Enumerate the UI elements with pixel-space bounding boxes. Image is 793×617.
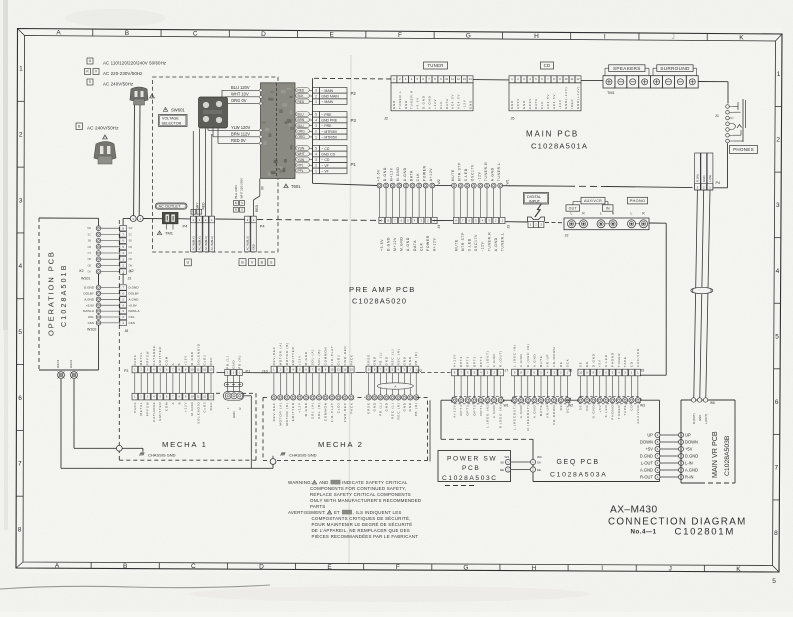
safety marks B V B S below enclosure [239, 259, 246, 266]
wires W4 pair to pair [511, 461, 531, 463]
wire W2 to W1 [435, 185, 451, 187]
wire W104 to mecha1 chassis node [73, 379, 75, 448]
connector P2 circles row [366, 395, 419, 420]
wire J1 down to preamp bus [727, 143, 729, 188]
SURROUND label box [657, 65, 693, 72]
MECHA 1 chassis gnd symbol [141, 452, 145, 454]
label TM1 with warning triangle [157, 231, 161, 235]
wire mains bus dashed across preamp top [257, 219, 381, 222]
warning notice text block [288, 480, 421, 539]
inline terminals 1-1 on mains wire [130, 216, 136, 222]
connector P3 (PRE power) [313, 112, 348, 140]
pin wires J10 to mecha2 circles [273, 373, 275, 395]
pin wires W2 to J4 [379, 188, 381, 217]
digital input optical arrow symbol [535, 204, 542, 218]
connector P4 (phones board top right) [695, 153, 713, 190]
scan artifact: left edge shadow [3, 0, 8, 330]
connector P1 (CD/VF power) [313, 146, 348, 174]
terminal strip TM1 (speakers/surround) [603, 76, 698, 88]
tape PB 3-pin plug [223, 391, 244, 418]
connector P4 (AC in, preamp left) [191, 216, 215, 252]
connector P3 (mecha1, preamp side) [132, 343, 214, 373]
scan noise overlay [0, 0, 1, 1]
connector J8 (operation pcb lower) [120, 285, 141, 326]
wires from AC plug 1 down to terminals [133, 105, 136, 216]
MECHA 2 dashed box [262, 397, 264, 460]
AUX/VCR label box [581, 197, 605, 204]
transformer secondary wire labels YLW WHT YLW PPL PPL [296, 146, 313, 173]
connector J4 (preamp top) [379, 217, 437, 251]
transformer secondary wire labels RED BLK RED [296, 88, 313, 104]
connector W102 (circle column) [83, 285, 120, 325]
connector W103 screw terminal [58, 372, 65, 379]
PRE AMP PCB left edge dashed [118, 220, 120, 393]
connector W4 right pair [530, 459, 535, 464]
wire mains bus between P4 strips [215, 218, 244, 220]
MECHA 2 chassis node [270, 459, 276, 465]
connector P1 (tape PB out) [225, 355, 243, 376]
wire RCA to GEQ J5 column [649, 222, 666, 224]
pin wires W1 to J3 [453, 188, 455, 217]
connector J3 (operation pcb upper) [120, 226, 133, 275]
wire mains bus outlet to P4 [178, 218, 191, 220]
wire TUNER to CD [473, 79, 509, 81]
MAIN VR PCB box [681, 399, 735, 401]
wire tape plug down to chassis line [244, 395, 252, 397]
AC OUTLET label box [155, 203, 187, 209]
wire dashed to TUNER connector [314, 77, 391, 80]
label T601 [284, 184, 288, 188]
MECHA 2 chassis gnd symbol [272, 456, 274, 459]
SPEAKERS label box [609, 65, 645, 72]
links between geq connector circles [503, 399, 512, 401]
link P1 to J10 [243, 372, 271, 374]
jumper oval A on P2 pins [377, 383, 413, 389]
note R V: AC 220-230V/50Hz [85, 69, 91, 75]
connector mecha2 W (circle row) [271, 395, 354, 426]
cable tie oval on P4 wires [691, 287, 713, 293]
wires selector down to P4 strips [192, 131, 194, 216]
wire trunk to main bus [313, 183, 377, 185]
wire J3 column to W102 column [98, 274, 100, 286]
dashes below power sw box [445, 485, 475, 487]
wire CD to TM1 [581, 79, 603, 81]
transformer secondary wire labels BLU BRN BLU ORG ORG [296, 112, 313, 139]
GEQ PCB outline [441, 399, 452, 401]
note S: AC 240V/50Hz [87, 79, 93, 85]
TUNER label box [424, 62, 448, 69]
connector J5 (CD) [509, 76, 581, 111]
wire W103 to mecha2 chassis node [60, 379, 62, 468]
connector W101 (circle column) [87, 226, 120, 274]
link mecha1 to P1 [217, 372, 225, 374]
switch SW601 label [163, 108, 167, 112]
warning triangle near plug 1 [150, 94, 155, 98]
wire trunk left of P connectors [312, 78, 314, 183]
connector W2 (circle row to preamp) [376, 165, 434, 188]
POWER SW PCB box [438, 451, 511, 482]
connector W6 (main vr top) [691, 398, 707, 424]
connector P4 (AC in, preamp right) [245, 216, 257, 252]
wire digital to RCA block [545, 222, 564, 224]
headphone jack J1 [726, 99, 746, 143]
pin wires P3 to mecha1 J [134, 373, 136, 394]
RCA jack block J2 (out/aux/phono) [564, 212, 649, 230]
safety mark boxes above right P4 [234, 201, 239, 206]
note B: AC 240V/50Hz [76, 123, 83, 130]
wire along mecha2 right edge [429, 400, 431, 461]
PHONES label box [730, 146, 758, 154]
warning triangle above plug 2 [103, 135, 108, 139]
safety mark boxes above left P4 [191, 209, 196, 214]
transformer T601 body [259, 83, 295, 179]
VOLTAGE SELECTOR label box [159, 115, 188, 127]
scan artifact: bottom wavy edge line [0, 585, 270, 589]
cable sleeve pill [224, 382, 243, 386]
wire W1 to P4 phones feed [503, 185, 569, 188]
connector P2 (MAIN power) [313, 88, 348, 105]
connector J10 (mecha2, preamp side) [271, 342, 354, 373]
PHONO label box [628, 197, 648, 204]
OUT label box [566, 205, 580, 211]
wires P4 down to main vr pcb [694, 190, 698, 398]
note U: AC 110/120/220/240V 50/60Hz [87, 58, 93, 64]
AC outlet component [162, 212, 178, 223]
connector digital 1 2 3 [528, 222, 544, 228]
connector J5 / W3 (geq select) [577, 348, 641, 424]
connector W104 screw terminal [71, 372, 78, 379]
connector J7 / W1 (geq opt) [451, 350, 504, 428]
wire mains bus to outlet [143, 218, 162, 220]
pin wires P1 to sleeve [226, 375, 228, 391]
safety mark U below enclosure [185, 259, 192, 266]
wire J4 row to J3 row [432, 220, 453, 222]
frame corner diagonals [18, 29, 25, 36]
connector mecha1 J (mecha side) [132, 393, 214, 423]
pin wires P2 [368, 373, 370, 395]
MECHA 1 chassis node [116, 445, 122, 451]
geq output circle column and main vr input column [640, 432, 698, 479]
mains wire into operation pcb connector [123, 217, 130, 219]
connector J3 (preamp top) [453, 217, 505, 251]
connector W1 (circle row to preamp) [451, 162, 503, 188]
connector J6 / W2 (geq rec) [511, 343, 571, 430]
wire TM1 to J1 phones [698, 81, 728, 83]
IN label box [603, 205, 614, 211]
wire J3 row to digital connector [506, 221, 528, 223]
AC plug symbol 2 [94, 142, 116, 165]
AC plug symbol 1 [130, 87, 148, 105]
power supply dashed enclosure [153, 77, 279, 252]
connector J2 (TUNER) [391, 76, 473, 111]
MECHA 1 dashed box [118, 393, 120, 460]
DIGITAL INPUT label box [524, 193, 549, 205]
connector P2 (rec/pb, preamp side) [366, 348, 419, 373]
dash link P2 to J7 [415, 372, 451, 374]
connector W4 left pair [505, 459, 510, 464]
OPERATION PCB outline [39, 217, 99, 219]
voltage selector SW601 body [199, 97, 228, 128]
CD label box [541, 62, 554, 69]
dash link mecha2 to P2 [356, 372, 366, 374]
wire T601 red 0V down to AC strips [259, 179, 261, 197]
scan gray blotches [65, 9, 165, 27]
scan artifact: vertical fold crease [349, 55, 351, 565]
